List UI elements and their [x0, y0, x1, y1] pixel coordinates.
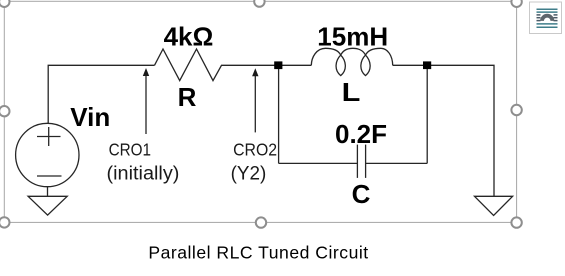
svg-text:0.2F: 0.2F — [335, 119, 387, 149]
svg-text:Vin: Vin — [70, 102, 110, 132]
svg-text:CRO1: CRO1 — [109, 139, 151, 159]
svg-text:R: R — [178, 82, 197, 112]
svg-text:4kΩ: 4kΩ — [164, 22, 214, 52]
svg-text:L: L — [342, 78, 361, 107]
svg-text:C: C — [352, 179, 371, 209]
svg-text:15mH: 15mH — [317, 22, 388, 52]
svg-text:(initially): (initially) — [107, 163, 180, 185]
svg-text:CRO2: CRO2 — [233, 139, 277, 159]
svg-text:Parallel RLC Tuned Circuit: Parallel RLC Tuned Circuit — [148, 242, 368, 262]
svg-text:(Y2): (Y2) — [231, 163, 267, 184]
